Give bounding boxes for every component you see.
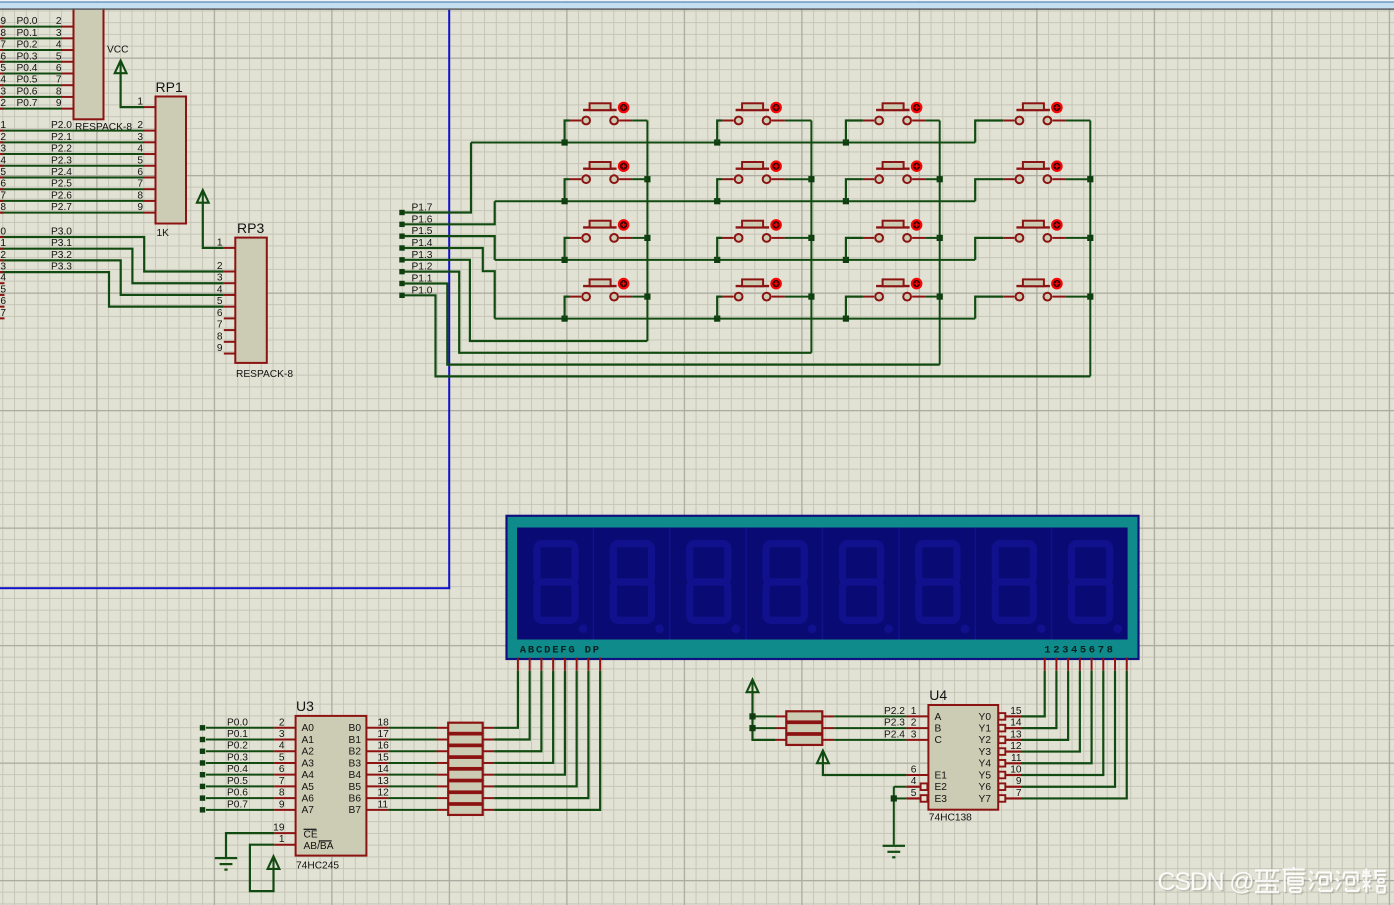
wire U4 Y1 to display digit pin 2 — [1021, 671, 1056, 728]
node P0.2 terminal (U3 side) — [200, 749, 205, 754]
net label P0.2 (U3 side) — [227, 741, 248, 752]
pin number 1 (RP1) — [137, 97, 143, 108]
svg-text:5: 5 — [911, 788, 917, 799]
net label P2.2 — [884, 706, 905, 717]
svg-text:8: 8 — [279, 788, 285, 799]
pin number 11 (U3 B7) — [378, 799, 389, 810]
pin stub RP1 pin 1 — [144, 106, 156, 108]
net label P0.6 (U3 side) — [227, 788, 248, 799]
svg-text:P3.0: P3.0 — [51, 227, 72, 238]
svg-text:B: B — [935, 724, 942, 735]
MCU pin number 15 (cut) — [0, 284, 6, 295]
watermark CSDN @... — [1158, 867, 1388, 898]
svg-text:Y1: Y1 — [979, 724, 992, 735]
junction VCC / R10 — [749, 725, 755, 731]
svg-text:7: 7 — [1016, 788, 1022, 799]
svg-text:A0: A0 — [302, 723, 315, 734]
wire resistor R9 to U4 A — [834, 715, 906, 717]
pin number 9 (U4 Y6) — [1016, 776, 1022, 787]
svg-text:1: 1 — [137, 97, 143, 108]
7-segment display digit figures (all segments off) — [537, 544, 1122, 634]
svg-text:2: 2 — [0, 98, 6, 109]
wire P2.5 (MCU to RP1 pin 7) — [0, 188, 144, 190]
svg-text:7: 7 — [56, 75, 62, 86]
pin name AB/BA with overbar (U3) — [304, 841, 334, 852]
push button SW2 (row 1, col 2) — [717, 103, 811, 143]
wire U3 AB/BA to VCC — [250, 845, 274, 891]
pin stub RP2 pin 6 — [62, 72, 74, 74]
pin name A3 (U3) — [302, 758, 315, 769]
pin number 3 (U3 A1) — [279, 729, 285, 740]
pin name Y2 (U4) — [979, 735, 992, 746]
svg-text:Y3: Y3 — [979, 747, 992, 758]
svg-text:RESPACK-8: RESPACK-8 — [236, 369, 293, 380]
MCU pin number 10 (cut) — [0, 227, 6, 238]
wire P0.5 (MCU to RP2 pin 7) — [0, 84, 62, 86]
wire P0.1 (MCU to RP2 pin 3) — [0, 37, 62, 39]
junction row 3 bus / col 3 — [843, 257, 849, 263]
wire P3.1 (MCU to RP3 pin 3) — [0, 249, 224, 284]
pin name Y4 (U4) — [979, 759, 992, 770]
wire P2.0 (MCU to RP1 pin 2) — [0, 130, 144, 132]
net label P1.7 — [412, 203, 433, 214]
svg-text:E1: E1 — [935, 770, 948, 781]
net label P0.0 — [17, 16, 38, 27]
wire resistor R5 to display segment pin — [494, 671, 565, 775]
net label P2.0 — [51, 120, 72, 131]
junction column 2 / row 3 switch — [808, 235, 814, 241]
svg-text:B5: B5 — [349, 782, 362, 793]
svg-text:2: 2 — [217, 261, 223, 272]
push button SW15 (row 4, col 3) — [846, 279, 940, 319]
svg-text:E3: E3 — [935, 794, 948, 805]
display segment pins (left group) — [518, 658, 600, 671]
svg-text:7: 7 — [0, 308, 6, 319]
pin stub RP3 pin 1 — [224, 247, 236, 249]
node P1.1 terminal — [399, 281, 404, 286]
pin stub U3 B7 (pin 11) — [366, 809, 388, 811]
MCU pin number 32 (cut) — [0, 98, 6, 109]
pin number 3 (RP3) — [217, 273, 223, 284]
resistor R9 (pull-up P2.2) — [775, 711, 834, 721]
svg-text:17: 17 — [378, 729, 390, 740]
pin stub RP3 pin 2 — [224, 271, 236, 273]
wire U4 Y2 to display digit pin 3 — [1021, 671, 1068, 740]
pin stub U4 Y6 (pin 9, inverting) — [999, 783, 1022, 790]
pin number 2 (U4 B) — [911, 718, 917, 729]
pin stub RP2 pin 3 — [62, 37, 74, 39]
net label P3.1 — [51, 238, 72, 249]
net label P1.3 — [412, 250, 433, 261]
display digit pin labels 12345678 — [1044, 644, 1115, 656]
push button SW10 (row 3, col 2) — [717, 220, 811, 260]
svg-text:8: 8 — [217, 331, 223, 342]
pin stub U3 B5 (pin 13) — [366, 785, 388, 787]
pin number 7 (RP1) — [137, 179, 143, 190]
pin number 6 (RP3) — [217, 308, 223, 319]
svg-text:74HC138: 74HC138 — [929, 813, 972, 824]
svg-text:8: 8 — [137, 190, 143, 201]
wire resistor R2 to display segment pin — [494, 671, 529, 740]
wire resistor R3 to display segment pin — [494, 671, 541, 752]
pin number 1 (U3 AB/BA) — [279, 834, 285, 845]
wire U4 E2/E3 to ground — [894, 787, 907, 845]
pin stub U4 E3 (pin 5, inverting) — [906, 795, 927, 802]
MCU pin number 16 (cut) — [0, 296, 6, 307]
svg-text:18: 18 — [378, 717, 390, 728]
value label 74HC245 (U3) — [296, 861, 339, 872]
window top edge bar (decorative) — [0, 0, 1394, 10]
pin name B6 (U3) — [349, 794, 362, 805]
svg-text:9: 9 — [1016, 776, 1022, 787]
junction row 1 bus / col 2 — [714, 139, 720, 145]
MCU pin stub P3.4 (cut) — [0, 282, 5, 284]
wire P0.1 to U3 A1 — [206, 739, 274, 741]
pin stub RP3 pin 5 — [224, 306, 236, 308]
svg-text:1: 1 — [911, 706, 917, 717]
net label P1.1 — [412, 273, 433, 284]
wire P0.6 (MCU to RP2 pin 8) — [0, 96, 62, 98]
pin stub U3 CE (pin 19) — [274, 832, 295, 834]
junction column 3 / row 2 switch — [937, 176, 943, 182]
node P1.2 terminal — [399, 269, 404, 274]
pin number 1 (RP3) — [217, 237, 223, 248]
MCU pin number 12 (cut) — [0, 250, 6, 261]
pin number 12 (U4 Y3) — [1010, 741, 1022, 752]
svg-text:6: 6 — [911, 765, 917, 776]
MCU pin number 36 (cut) — [0, 51, 6, 62]
junction row 2 bus / col 1 — [562, 198, 568, 204]
wire P1.2 to keypad column 2 — [404, 272, 811, 353]
MCU pin stub P3.7 (cut) — [0, 317, 5, 319]
wire VCC to pull-up resistors — [753, 693, 776, 740]
svg-text:B0: B0 — [349, 723, 362, 734]
wire P0.4 (MCU to RP2 pin 6) — [0, 72, 62, 74]
pin number 3 (RP2) — [56, 28, 62, 39]
wire P0.7 (MCU to RP2 pin 9) — [0, 108, 62, 110]
pin name Y5 (U4) — [979, 770, 992, 781]
display segment pin labels ABCDEFG DP — [520, 644, 601, 656]
push button SW14 (row 4, col 2) — [717, 279, 811, 319]
svg-text:A1: A1 — [302, 735, 315, 746]
svg-text:P2.7: P2.7 — [51, 202, 72, 213]
net label P0.1 (U3 side) — [227, 729, 248, 740]
pin name A1 (U3) — [302, 735, 315, 746]
MCU pin number 17 (cut) — [0, 308, 6, 319]
pin number 12 (U3 B6) — [378, 788, 390, 799]
node P0.4 terminal (U3 side) — [200, 772, 205, 777]
wire P0.6 to U3 A6 — [206, 797, 274, 799]
node P1.3 terminal — [399, 257, 404, 262]
svg-text:P0.1: P0.1 — [17, 28, 38, 39]
push button SW8 (row 2, col 4) — [975, 162, 1090, 202]
svg-text:P2.6: P2.6 — [51, 190, 72, 201]
pin number 14 (U3 B4) — [378, 764, 390, 775]
pin stub U3 A7 (pin 9) — [274, 809, 295, 811]
svg-text:P0.7: P0.7 — [227, 799, 248, 810]
svg-text:0: 0 — [0, 227, 6, 238]
pin stub RP2 pin 2 — [62, 26, 74, 28]
pin number 3 (U4 C) — [911, 729, 917, 740]
svg-text:3: 3 — [137, 132, 143, 143]
wire resistor R11 to U4 C — [834, 739, 906, 741]
svg-text:2: 2 — [0, 132, 6, 143]
wire U4 Y6 to display digit pin 7 — [1021, 671, 1115, 787]
wire U3 CE to ground — [226, 833, 274, 857]
svg-text:3: 3 — [56, 28, 62, 39]
pin number 6 (RP2) — [56, 63, 62, 74]
IC U3 74HC245 body — [296, 716, 367, 856]
pin stub RP2 pin 9 — [62, 108, 74, 110]
svg-text:P0.2: P0.2 — [227, 741, 248, 752]
pin number 2 (U3 A0) — [279, 717, 285, 728]
pin name E3 (U4) — [935, 794, 948, 805]
pin stub U4 Y5 (pin 10, inverting) — [999, 772, 1022, 779]
junction row 1 bus / col 1 — [562, 139, 568, 145]
resistor pack RP1 reference label — [156, 79, 183, 95]
svg-text:P0.5: P0.5 — [227, 776, 248, 787]
pin name Y1 (U4) — [979, 724, 992, 735]
push button SW11 (row 3, col 3) — [846, 220, 940, 260]
pin stub RP2 pin 7 — [62, 84, 74, 86]
pin stub RP3 pin 9 — [224, 353, 236, 355]
junction row 4 bus / col 3 — [843, 316, 849, 322]
pin name CE with overbar (U3) — [304, 829, 318, 840]
wire U4 Y0 to display digit pin 1 — [1021, 671, 1045, 717]
junction row 1 bus / col 3 — [843, 139, 849, 145]
pin number 11 (U4 Y4) — [1011, 753, 1022, 764]
junction column 1 / row 2 switch — [644, 176, 650, 182]
junction VCC / R9 — [749, 713, 755, 719]
svg-text:P0.4: P0.4 — [17, 63, 38, 74]
pin number 9 (U3 A7) — [279, 799, 285, 810]
ground symbol (U3 CE) — [215, 857, 237, 871]
wire P3.0 (MCU to RP3 pin 2) — [0, 237, 224, 272]
power VCC label — [107, 45, 129, 56]
svg-text:1: 1 — [0, 120, 6, 131]
pin number 10 (U4 Y5) — [1010, 765, 1022, 776]
7-segment display panel — [517, 528, 1128, 640]
display digit-common pins (right group) — [1045, 658, 1127, 671]
svg-text:4: 4 — [911, 776, 917, 787]
wire P1.0 to keypad column 4 — [404, 295, 1090, 376]
wire P0.5 to U3 A5 — [206, 785, 274, 787]
svg-text:P0.5: P0.5 — [17, 75, 38, 86]
wire P0.4 to U3 A4 — [206, 774, 274, 776]
pin number 13 (U3 B5) — [378, 776, 390, 787]
svg-text:2: 2 — [137, 120, 143, 131]
MCU pin number 11 (cut) — [0, 238, 6, 249]
wire keypad row 1 bus — [471, 142, 975, 144]
junction row 2 bus / col 2 — [714, 198, 720, 204]
wire P1.1 to keypad column 3 — [404, 283, 940, 364]
pin number 7 (U3 A5) — [279, 776, 285, 787]
MCU pin number 34 (cut) — [0, 75, 6, 86]
svg-text:12: 12 — [1010, 741, 1022, 752]
MCU pin number 24 (cut) — [0, 155, 6, 166]
junction row 2 bus / col 3 — [843, 198, 849, 204]
svg-text:7: 7 — [0, 190, 6, 201]
pin number 8 (RP2) — [56, 86, 62, 97]
svg-text:P2.3: P2.3 — [51, 155, 72, 166]
push button SW12 (row 3, col 4) — [975, 220, 1090, 260]
svg-text:5: 5 — [0, 284, 6, 295]
junction row 4 bus / col 2 — [714, 316, 720, 322]
pin number 9 (RP1) — [137, 202, 143, 213]
pin number 13 (U4 Y2) — [1010, 729, 1022, 740]
svg-text:AB/BA: AB/BA — [304, 841, 334, 852]
value label RESPACK-8 (RP3) — [236, 369, 293, 380]
wire resistor R7 to display segment pin — [494, 671, 588, 798]
power flag VCC (feeds RP1 pin 1) — [115, 61, 127, 74]
pin number 6 (U4 E1) — [911, 765, 917, 776]
svg-text:7: 7 — [0, 40, 6, 51]
net label P0.5 (U3 side) — [227, 776, 248, 787]
resistor R6 (segment line 5) — [388, 781, 494, 791]
svg-text:4: 4 — [137, 144, 143, 155]
pin stub RP1 pin 5 — [144, 165, 156, 167]
7-segment display digit separators — [593, 528, 1051, 640]
pin number 6 (U3 A4) — [279, 764, 285, 775]
net label P2.6 — [51, 190, 72, 201]
wire P2.7 (MCU to RP1 pin 9) — [0, 212, 144, 214]
push button SW7 (row 2, col 3) — [846, 162, 940, 202]
pin number 4 (U3 A2) — [279, 741, 285, 752]
svg-text:B3: B3 — [349, 758, 362, 769]
wire U4 Y7 to display digit pin 8 — [1021, 671, 1127, 799]
wire VCC to RP1 pin 1 — [121, 73, 144, 107]
net label P0.6 — [17, 86, 38, 97]
resistor pack RP2 RESPACK-8 (top-left, partially cut) — [74, 6, 104, 119]
svg-text:P3.3: P3.3 — [51, 262, 72, 273]
svg-text:14: 14 — [378, 764, 390, 775]
pin number 9 (RP3) — [217, 343, 223, 354]
push button SW5 (row 2, col 1) — [565, 162, 648, 202]
svg-text:1K: 1K — [157, 228, 170, 239]
svg-text:A2: A2 — [302, 747, 315, 758]
ground symbol (U4 E2/E3) — [883, 845, 905, 859]
net label P0.3 (U3 side) — [227, 752, 248, 763]
MCU pin number 22 (cut) — [0, 132, 6, 143]
pin number 16 (U3 B2) — [378, 741, 390, 752]
junction column 4 / row 4 switch — [1087, 294, 1093, 300]
pin number 3 (RP1) — [137, 132, 143, 143]
svg-text:5: 5 — [279, 752, 285, 763]
svg-text:6: 6 — [217, 308, 223, 319]
net label P0.5 — [17, 75, 38, 86]
pin name A2 (U3) — [302, 747, 315, 758]
wire P2.6 (MCU to RP1 pin 8) — [0, 200, 144, 202]
svg-text:13: 13 — [1010, 729, 1022, 740]
pin number 18 (U3 B0) — [378, 717, 390, 728]
IC U4 74HC138 body — [928, 705, 998, 810]
net label P2.1 — [51, 132, 72, 143]
node P0.6 terminal (U3 side) — [200, 795, 205, 800]
net label P2.4 — [51, 167, 72, 178]
svg-text:P2.2: P2.2 — [51, 144, 72, 155]
push button SW3 (row 1, col 3) — [846, 103, 940, 143]
svg-text:5: 5 — [217, 296, 223, 307]
resistor R7 (segment line 6) — [388, 793, 494, 803]
pin stub RP1 pin 4 — [144, 153, 156, 155]
svg-text:3: 3 — [0, 144, 6, 155]
node P1.4 terminal — [399, 245, 404, 250]
svg-text:B4: B4 — [349, 770, 362, 781]
svg-text:4: 4 — [279, 741, 285, 752]
wire U4 Y3 to display digit pin 4 — [1021, 671, 1080, 752]
pin stub U4 C (pin 3) — [906, 739, 928, 741]
svg-text:9: 9 — [56, 98, 62, 109]
svg-text:12345678: 12345678 — [1044, 644, 1115, 656]
svg-text:3: 3 — [279, 729, 285, 740]
pin number 17 (U3 B1) — [378, 729, 390, 740]
svg-text:13: 13 — [378, 776, 390, 787]
wire P1.7 to keypad row 1 bus — [404, 143, 471, 213]
pin number 8 (RP1) — [137, 190, 143, 201]
pin name A (U4) — [935, 712, 942, 723]
svg-text:Y5: Y5 — [979, 770, 992, 781]
svg-text:6: 6 — [0, 51, 6, 62]
wire P0.2 to U3 A2 — [206, 750, 274, 752]
svg-text:3: 3 — [0, 86, 6, 97]
node P1.5 terminal — [399, 233, 404, 238]
MCU pin number 14 (cut) — [0, 273, 6, 284]
pin number 19 (U3 CE) — [273, 823, 285, 834]
wire P3.3 (MCU to RP3 pin 5) — [0, 272, 224, 307]
sheet border (blue, bottom-right corner of schematic sheet) — [0, 10, 450, 589]
pin number 8 (U3 A6) — [279, 788, 285, 799]
pin stub RP3 pin 7 — [224, 329, 236, 331]
svg-text:7: 7 — [279, 776, 285, 787]
wire P0.3 (MCU to RP2 pin 5) — [0, 61, 62, 63]
pin stub U3 A0 (pin 2) — [274, 727, 295, 729]
wire U4 Y4 to display digit pin 5 — [1021, 671, 1092, 764]
pin number 14 (U4 Y1) — [1010, 718, 1022, 729]
svg-text:B6: B6 — [349, 794, 362, 805]
resistor pack RP3 body — [235, 238, 266, 363]
pin stub U4 E2 (pin 4, inverting) — [906, 783, 927, 790]
net label P2.2 — [51, 144, 72, 155]
svg-text:P0.3: P0.3 — [17, 51, 38, 62]
pin number 5 (U3 A3) — [279, 752, 285, 763]
MCU pin number 37 (cut) — [0, 40, 6, 51]
svg-text:A4: A4 — [302, 770, 315, 781]
wire P1.3 to keypad column 1 — [404, 260, 647, 341]
wire keypad row 2 bus — [495, 200, 976, 202]
junction row 3 bus / col 2 — [714, 257, 720, 263]
node P0.5 terminal (U3 side) — [200, 784, 205, 789]
MCU pin stub P3.6 (cut) — [0, 306, 5, 308]
MCU pin number 27 (cut) — [0, 190, 6, 201]
pin number 7 (RP3) — [217, 320, 223, 331]
svg-text:15: 15 — [378, 752, 390, 763]
svg-text:74HC245: 74HC245 — [296, 861, 339, 872]
wire P2.3 (MCU to RP1 pin 5) — [0, 165, 144, 167]
pin name Y3 (U4) — [979, 747, 992, 758]
resistor R8 (segment line 7) — [388, 805, 494, 815]
wire resistor R1 to display segment pin — [494, 671, 518, 728]
svg-text:15: 15 — [1010, 706, 1022, 717]
wire P2.1 (MCU to RP1 pin 3) — [0, 141, 144, 143]
pin stub RP1 pin 8 — [144, 200, 156, 202]
MCU pin number 28 (cut) — [0, 202, 6, 213]
pin stub U3 A2 (pin 4) — [274, 750, 295, 752]
net label P1.5 — [412, 226, 433, 237]
pin name A6 (U3) — [302, 794, 315, 805]
svg-text:4: 4 — [0, 155, 6, 166]
pin number 5 (U4 E3) — [911, 788, 917, 799]
MCU pin number 25 (cut) — [0, 167, 6, 178]
